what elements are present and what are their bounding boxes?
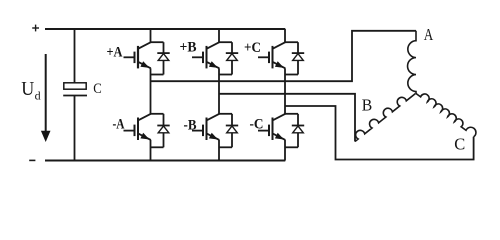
wire: -A collector stub to diode <box>151 113 164 115</box>
svg-text:A: A <box>424 25 434 44</box>
wire: phase B output <box>219 94 355 142</box>
IGBT +C <box>258 42 285 68</box>
IGBT -C <box>258 114 285 140</box>
diode across -A <box>157 114 169 148</box>
winding C (motor phase C coil) <box>416 94 476 137</box>
svg-text:U: U <box>21 78 34 100</box>
wire: leg A midpoint rail <box>150 68 152 114</box>
IGBT +B <box>192 42 219 68</box>
svg-text:+C: +C <box>244 40 261 56</box>
IGBT -B <box>192 114 219 140</box>
wire: +A collector stub to diode <box>151 41 164 43</box>
diode across +A <box>157 42 169 74</box>
wire: -A emitter stub to diode <box>151 146 164 148</box>
capacitor C (DC link) <box>63 83 87 96</box>
wire: -B collector stub to diode <box>219 113 232 115</box>
wire: +C emitter stub to diode <box>285 74 298 76</box>
wire: -B emitter stub to diode <box>219 146 232 148</box>
svg-text:+A: +A <box>107 44 123 60</box>
wire: +B collector lead from bus <box>218 29 220 42</box>
svg-text:d: d <box>35 89 41 103</box>
wire: -C emitter lead to negative bus <box>284 140 286 161</box>
plus terminal of DC link <box>32 25 39 32</box>
svg-text:B: B <box>362 95 373 114</box>
winding A (motor phase A coil) <box>408 31 416 94</box>
IGBT +A <box>124 42 151 68</box>
wire: phase A output to winding A <box>151 31 417 81</box>
svg-text:C: C <box>454 134 465 153</box>
diode across -C <box>292 114 304 148</box>
wire: -C collector stub to diode <box>285 113 298 115</box>
wire: +A emitter stub to diode <box>151 74 164 76</box>
Ud voltage arrow <box>41 54 51 142</box>
IGBT -A <box>124 114 151 140</box>
diode across +C <box>292 42 304 74</box>
diode across +B <box>226 42 238 74</box>
wire: +C collector lead from bus <box>284 29 286 42</box>
wire: capacitor bottom lead <box>74 96 76 161</box>
wire: capacitor top lead <box>74 29 76 83</box>
wire: +B collector stub to diode <box>219 41 232 43</box>
wire: -C emitter stub to diode <box>285 146 298 148</box>
winding B (motor phase B coil) <box>355 94 416 142</box>
wire: leg C midpoint rail <box>284 68 286 114</box>
wire: -A emitter lead to negative bus <box>150 140 152 161</box>
wire: +C collector stub to diode <box>285 41 298 43</box>
diode across -B <box>226 114 238 148</box>
wire: positive DC bus <box>45 28 285 30</box>
wire: leg B midpoint rail <box>218 68 220 114</box>
minus terminal of DC link <box>29 159 35 161</box>
svg-text:C: C <box>93 81 102 97</box>
svg-text:-A: -A <box>113 117 125 133</box>
label Ud <box>21 78 40 103</box>
wire: negative DC bus <box>45 160 285 162</box>
wire: -B emitter lead to negative bus <box>218 140 220 161</box>
svg-text:+B: +B <box>180 40 197 56</box>
wire: +B emitter stub to diode <box>219 74 232 76</box>
wire: phase C output <box>285 106 474 160</box>
wire: +A collector lead from bus <box>150 29 152 42</box>
